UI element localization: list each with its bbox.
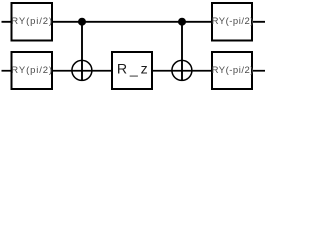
control dot CNOT-1	[78, 18, 86, 26]
svg-text:RY(pi/2): RY(pi/2)	[11, 65, 52, 76]
CNOT-2 target (XOR circle)	[172, 60, 192, 80]
wire CNOT-2 vertical control line	[181, 22, 183, 81]
svg-text:RY(-pi/2): RY(-pi/2)	[212, 65, 254, 76]
wire CNOT-1 vertical control line	[81, 22, 83, 81]
svg-text:RY(pi/2): RY(pi/2)	[11, 16, 52, 27]
gate RY(pi/2) q1	[11, 52, 52, 89]
svg-text:R_z: R_z	[117, 62, 148, 78]
wire q1 (bottom qubit line)	[2, 70, 266, 72]
control dot CNOT-2	[178, 18, 186, 26]
gate RY(pi/2) q0	[11, 3, 52, 41]
wire q0 (top qubit line)	[2, 21, 266, 23]
gate RY(-pi/2) q0	[212, 3, 254, 41]
svg-text:RY(-pi/2): RY(-pi/2)	[212, 16, 254, 27]
gate RY(-pi/2) q1	[212, 52, 254, 89]
gate R_z q1	[112, 52, 152, 89]
CNOT-1 target (XOR circle)	[72, 60, 92, 80]
